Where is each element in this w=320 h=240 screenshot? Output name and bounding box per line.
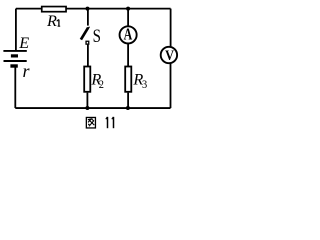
svg-text:E: E bbox=[18, 34, 29, 52]
svg-text:2: 2 bbox=[99, 77, 104, 91]
svg-text:S: S bbox=[93, 26, 101, 47]
svg-text:r: r bbox=[23, 61, 31, 81]
svg-text:V: V bbox=[165, 47, 174, 63]
svg-text:3: 3 bbox=[142, 77, 147, 91]
svg-text:A: A bbox=[124, 25, 133, 44]
svg-text:R: R bbox=[46, 12, 57, 30]
